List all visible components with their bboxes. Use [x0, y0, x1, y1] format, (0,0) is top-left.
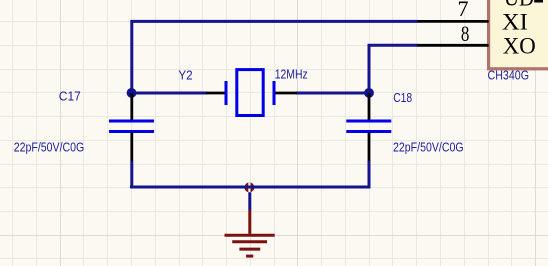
svg-text:12MHz: 12MHz — [275, 66, 308, 81]
svg-text:22pF/50V/C0G: 22pF/50V/C0G — [393, 139, 464, 154]
crystal Y2 : body rectangle — [237, 70, 263, 116]
capacitor C17 : top plate — [109, 120, 154, 123]
crystal Y2 : right electrode plate — [273, 81, 276, 105]
svg-text:XO: XO — [503, 34, 536, 60]
svg-text:XI: XI — [502, 10, 528, 36]
svg-text:Y2: Y2 — [178, 67, 192, 82]
node: junction left (C17/Y2/XI) — [127, 88, 137, 98]
pin 8 (XO) lead — [417, 44, 489, 47]
capacitor C18 : bottom plate — [346, 130, 391, 133]
node: junction right (C18/Y2/XO) — [364, 88, 374, 98]
svg-text:22pF/50V/C0G: 22pF/50V/C0G — [14, 139, 85, 154]
crystal Y2 : right pin — [274, 92, 297, 95]
wire: C18 bottom to ground rail — [368, 161, 371, 187]
capacitor C18 : top plate — [346, 120, 391, 123]
crystal Y2 : left pin — [206, 92, 226, 95]
capacitor C17 : bottom plate — [109, 130, 154, 133]
svg-text:C17: C17 — [59, 88, 81, 103]
node: ground tap (circle-cross marker) — [244, 182, 254, 192]
capacitor C17 : bottom pin — [130, 133, 133, 162]
wire: top net XI from left branch to pin 7 — [132, 21, 418, 93]
wire: ground stem down — [248, 192, 251, 210]
ground — [225, 210, 275, 256]
capacitor C17 : top pin — [130, 93, 133, 120]
pin 7 (XI) lead — [417, 20, 489, 23]
IC U1 CH340G body (part rectangle, clipped at top/right) — [489, 0, 548, 69]
svg-text:7: 7 — [458, 0, 469, 21]
wire: ground stem (blue part over the marker) — [244, 186, 254, 189]
capacitor C18 : top pin — [368, 93, 371, 120]
svg-text:C18: C18 — [393, 90, 412, 105]
svg-text:8: 8 — [461, 21, 470, 46]
capacitor C18 : bottom pin — [368, 133, 371, 162]
svg-text:CH340G: CH340G — [488, 68, 530, 83]
pin name UD- dash (clipped) — [534, 0, 543, 3]
crystal Y2 : left electrode plate — [225, 81, 228, 105]
wire: crystal to right junction — [296, 92, 369, 95]
wire: left junction to crystal — [132, 92, 207, 95]
svg-text:UD: UD — [504, 0, 534, 12]
wire: bottom ground rail — [130, 186, 371, 189]
wire: C17 bottom to ground rail — [130, 161, 133, 187]
wire: XO net from C18 branch up and right to pin 8 — [369, 45, 418, 93]
